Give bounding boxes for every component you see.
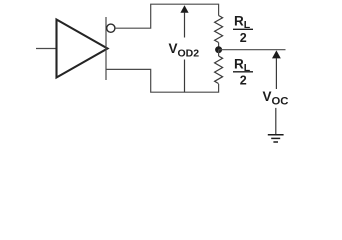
wire top output [115, 4, 219, 28]
arrow VOD2 shaft lower [184, 60, 186, 93]
arrow VOC head [272, 50, 281, 58]
label RL/2 bottom: fraction bar [233, 71, 253, 73]
wire input lead [36, 48, 57, 50]
resistor R-top zigzag [215, 16, 223, 43]
svg-text:VOC: VOC [263, 89, 289, 107]
svg-text:2: 2 [240, 31, 247, 45]
arrow VOC shaft upper [275, 58, 277, 89]
ground bar 2 [271, 137, 280, 139]
svg-text:RL: RL [234, 14, 251, 32]
resistor R-bottom zigzag [215, 56, 223, 84]
wire bottom output [106, 69, 219, 92]
node junction dot [215, 46, 222, 53]
wire VOC to ground [275, 108, 277, 135]
node inversion bubble [107, 24, 115, 32]
resistor R-top lead to node [218, 43, 220, 50]
arrow VOD2 head [180, 5, 188, 13]
op-amp U1 driver triangle [57, 20, 108, 78]
wire output bar [105, 17, 107, 80]
svg-text:2: 2 [240, 73, 247, 87]
ground bar 3 [273, 141, 278, 143]
arrow VOD2 shaft upper [184, 13, 186, 38]
ground bar 1 [268, 134, 284, 136]
svg-text:VOD2: VOD2 [169, 41, 200, 60]
label RL/2 top: fraction bar [233, 28, 253, 30]
wire node to VOC [219, 49, 286, 51]
resistor R-bottom lead from node [218, 50, 220, 56]
